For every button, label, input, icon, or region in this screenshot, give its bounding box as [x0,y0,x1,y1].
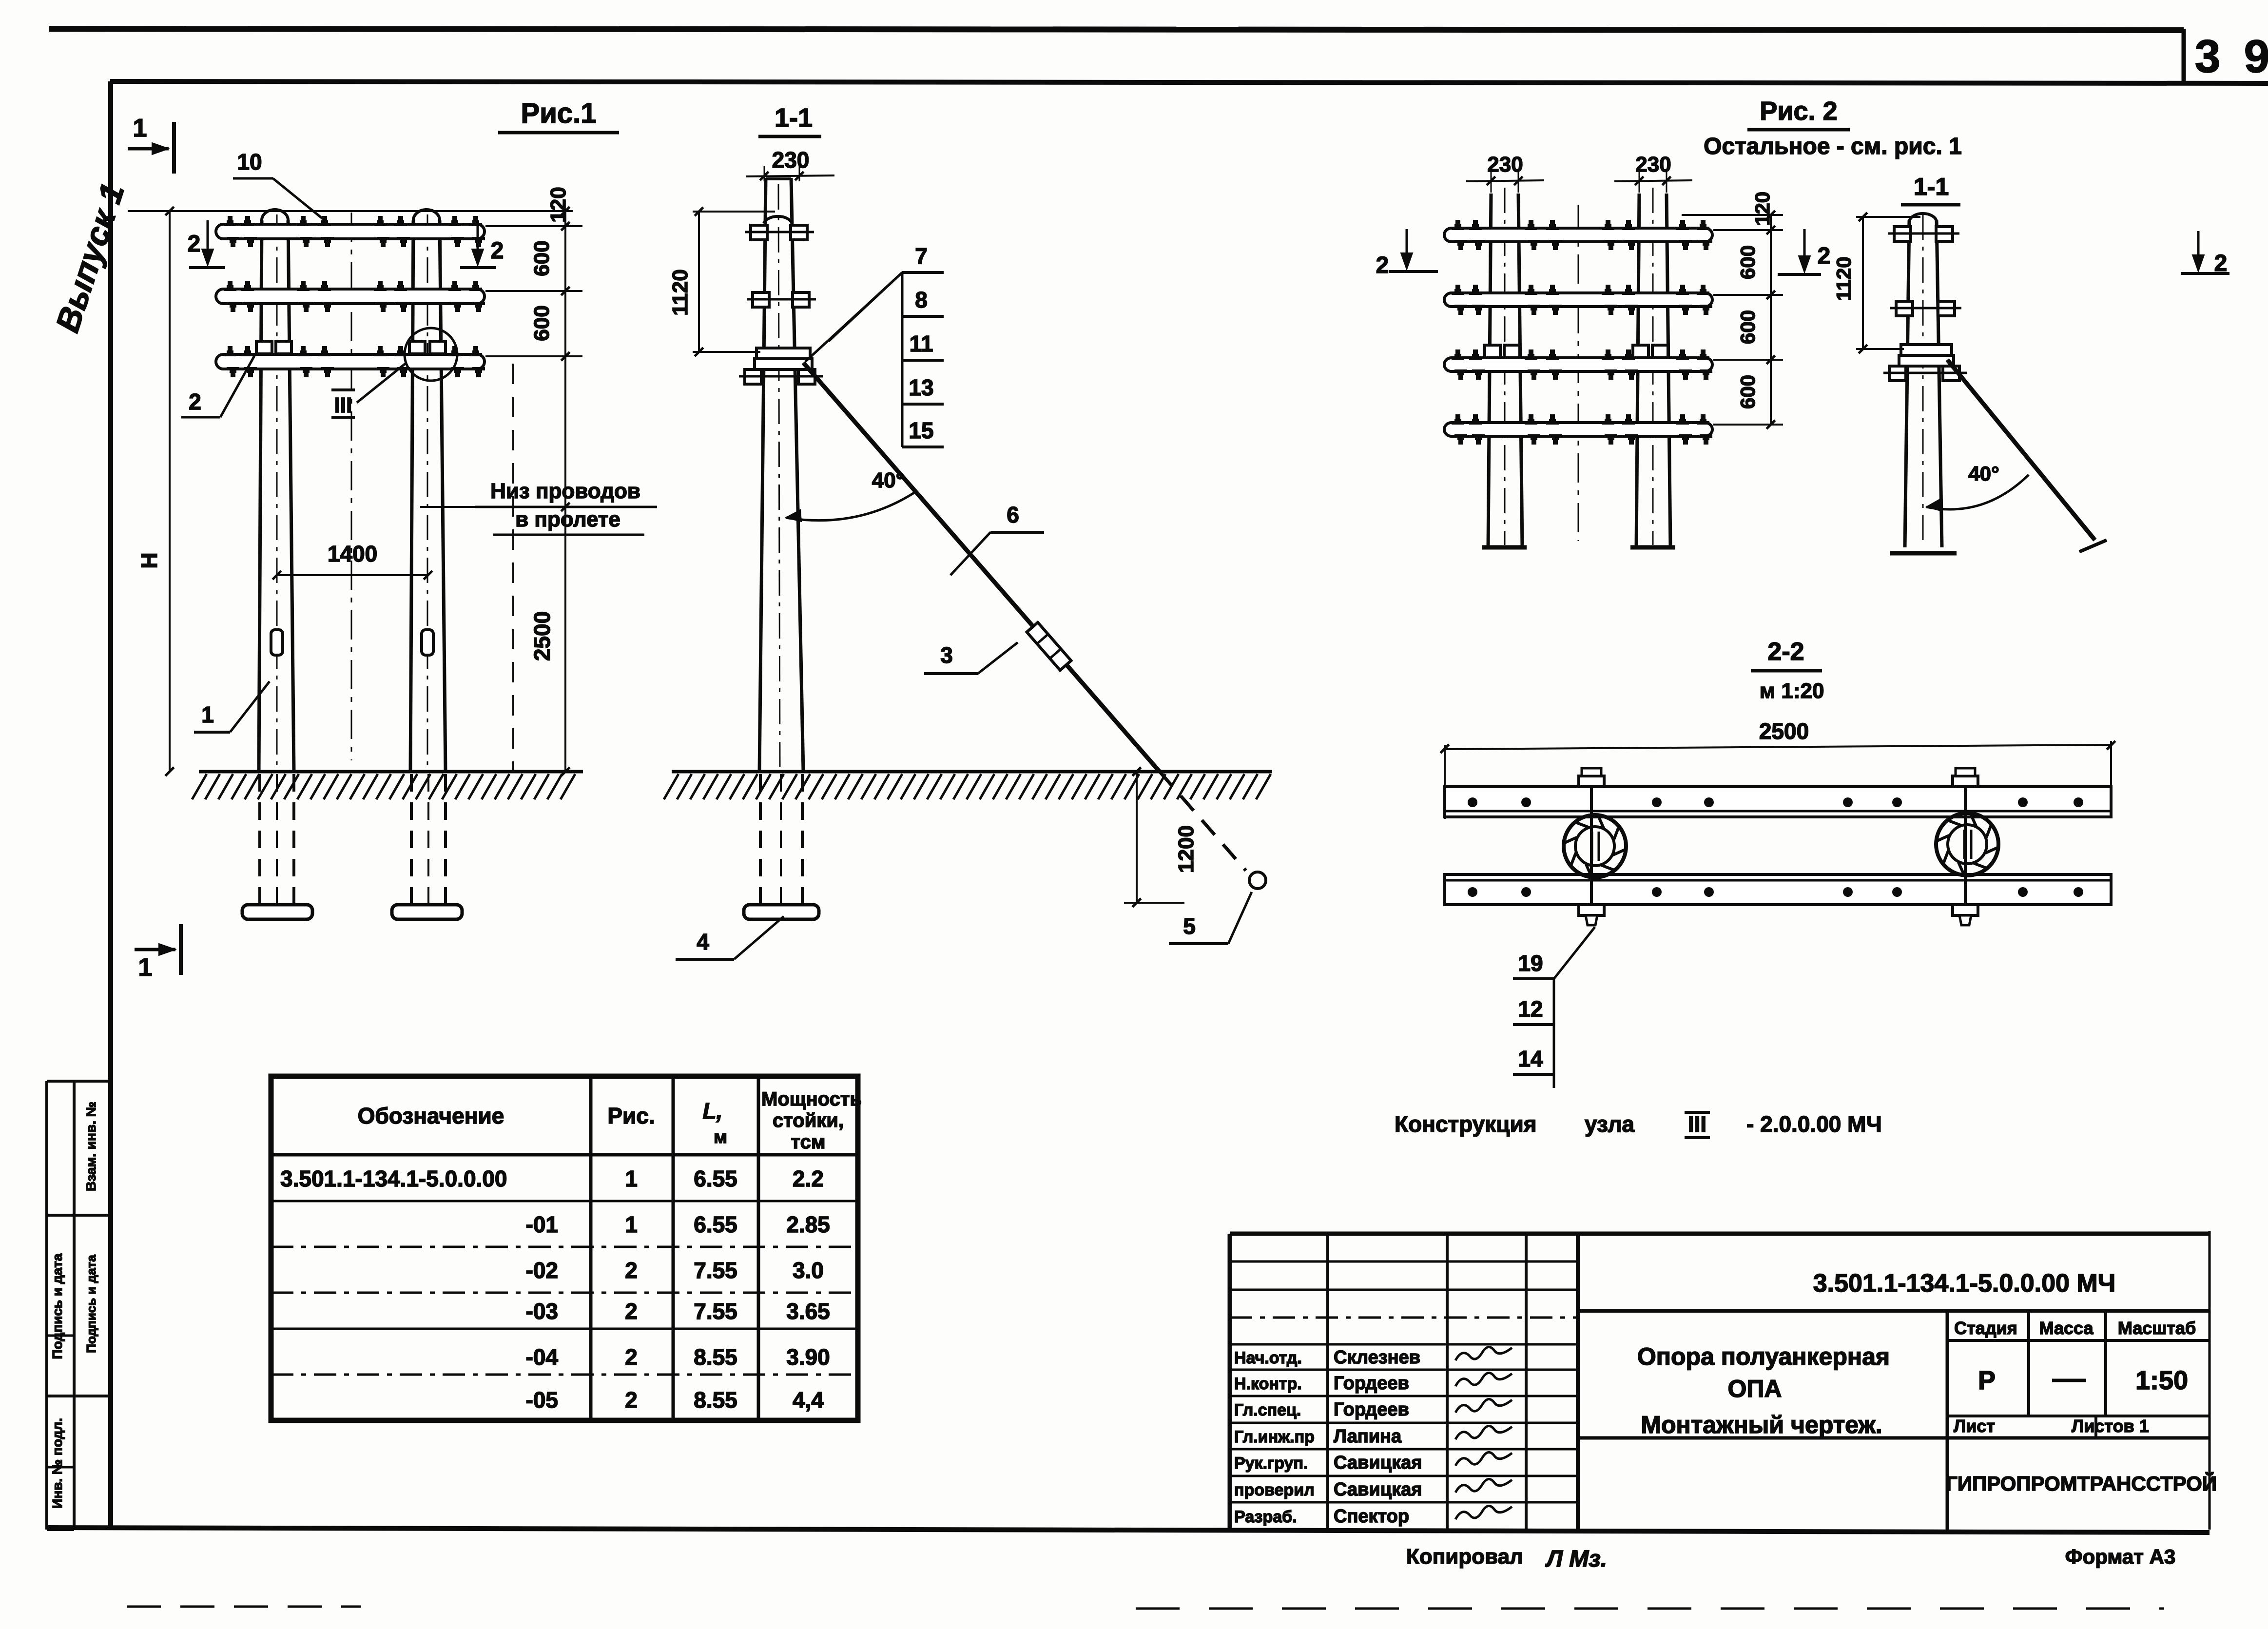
fig1 crossarm 1 [216,224,485,239]
svg-text:1120: 1120 [1832,256,1855,301]
fig2 crossarm 1 [1444,228,1712,242]
svg-text:Склезнев: Склезнев [1334,1347,1420,1368]
svg-text:L,: L, [703,1098,723,1124]
svg-text:8.55: 8.55 [694,1344,737,1370]
svg-text:120: 120 [546,187,570,222]
fig1 ground hatch [192,774,575,799]
fig1 footing plates [242,905,312,919]
fig2 crossarm 4 [1444,423,1712,436]
svg-text:Масштаб: Масштаб [2118,1318,2196,1338]
section ground hatch [664,774,1271,799]
svg-text:Рис.: Рис. [607,1103,655,1128]
fig2 crossarm 3 insulator pins [1452,349,1464,360]
svg-text:1400: 1400 [328,541,377,566]
svg-text:4: 4 [697,929,709,954]
svg-text:1: 1 [625,1212,638,1237]
svg-text:Рук.груп.: Рук.груп. [1234,1454,1308,1473]
fig2 crossarm 2 insulator pins [1452,285,1464,295]
fig1 crossarm 3 insulator pins [224,346,236,356]
svg-text:3.65: 3.65 [786,1299,830,1324]
svg-text:проверил: проверил [1234,1481,1315,1499]
svg-text:Гл.инж.пр: Гл.инж.пр [1234,1428,1315,1446]
handwritten Vypusk 1 [49,179,132,337]
svg-text:Рис. 2: Рис. 2 [1760,97,1837,126]
svg-text:1-1: 1-1 [1914,173,1949,200]
svg-text:стойки,: стойки, [773,1110,844,1131]
pole clamp 1 [751,225,767,240]
svg-text:2: 2 [188,231,201,257]
svg-text:1: 1 [201,702,214,727]
fig1 left pole [259,220,262,772]
fig1 pole grips [271,630,283,655]
wire dashed vertical [512,364,514,772]
svg-text:Нач.отд.: Нач.отд. [1234,1349,1302,1367]
signature rows [1230,1369,1578,1371]
fig2 section pole [1905,220,1909,547]
svg-text:19: 19 [1518,950,1543,976]
svg-text:Инв. № подл.: Инв. № подл. [50,1418,65,1509]
dim 1120 [698,212,700,352]
svg-text:Савицкая: Савицкая [1334,1453,1422,1473]
svg-text:2500: 2500 [1759,718,1809,744]
stadia massa masshtab grid [1946,1311,1949,1530]
table header row [271,1153,858,1157]
table row lines [271,1200,858,1202]
svg-text:Подпись и дата: Подпись и дата [50,1253,65,1359]
svg-text:2: 2 [189,389,201,414]
fig1 arm3 clamp plates [256,341,272,354]
svg-text:Л Мз.: Л Мз. [1545,1546,1607,1572]
guy clamp assembly [756,348,810,359]
fig2 center axis [1578,205,1579,541]
fig2 right pole [1636,194,1639,547]
pole clamp 2 [753,292,769,307]
svg-text:H: H [136,552,162,568]
svg-text:Листов 1: Листов 1 [2072,1416,2149,1436]
svg-text:14: 14 [1518,1046,1543,1071]
svg-text:-03: -03 [526,1299,558,1324]
fig2 guy clamp [1901,345,1952,355]
fig1 right pole [410,220,413,772]
svg-text:3: 3 [2195,31,2221,82]
svg-text:м: м [714,1127,727,1147]
svg-text:2-2: 2-2 [1767,638,1804,666]
svg-text:3.90: 3.90 [786,1344,830,1370]
section ground line [672,770,1272,774]
frame bottom border [47,1528,2210,1532]
svg-text:Взам. инв. №: Взам. инв. № [83,1102,98,1191]
through bolts of clamp [1590,779,1593,914]
overall height dimension H [169,211,171,772]
svg-text:600: 600 [530,240,554,276]
guy wire [803,363,1160,772]
section footing plate [744,905,819,919]
svg-text:2: 2 [1376,252,1389,278]
svg-text:Лапина: Лапина [1334,1426,1402,1447]
svg-text:Подпись и дата: Подпись и дата [84,1255,98,1353]
fig2 section clamp 1 [1894,227,1911,241]
svg-text:230: 230 [772,147,810,173]
svg-text:ОПА: ОПА [1728,1375,1782,1402]
guy wire buried dashed [1160,772,1246,871]
dim 1400 between poles [277,574,428,576]
svg-text:600: 600 [1736,310,1759,344]
svg-text:40°: 40° [872,468,905,492]
svg-text:-02: -02 [526,1258,558,1283]
fig2 section clamp 2 [1896,301,1913,316]
svg-text:600: 600 [530,305,554,341]
svg-text:тсм: тсм [791,1131,826,1153]
frame left border [108,81,113,1530]
section buried pole [759,774,762,906]
svg-text:III: III [1688,1111,1706,1137]
svg-text:-05: -05 [526,1387,558,1413]
svg-text:2: 2 [625,1299,638,1324]
svg-text:3: 3 [940,642,953,668]
svg-text:Опора полуанкерная: Опора полуанкерная [1637,1343,1890,1370]
svg-text:Гордеев: Гордеев [1334,1373,1409,1394]
svg-text:2: 2 [625,1258,638,1283]
dim 1200 anchor depth [1136,772,1138,903]
frame top border [110,81,2268,83]
svg-text:Лист: Лист [1954,1416,1995,1436]
svg-text:8.55: 8.55 [694,1387,737,1413]
svg-text:2.2: 2.2 [793,1166,824,1191]
upper empty rows [1230,1261,1578,1263]
svg-text:в пролете: в пролете [515,507,620,531]
fig1 ground line [199,770,583,774]
svg-text:1: 1 [133,114,147,142]
fig1 buried pole dashes [258,774,261,906]
svg-text:3.501.1-134.1-5.0.0.00: 3.501.1-134.1-5.0.0.00 [280,1166,507,1191]
svg-text:Стадия: Стадия [1954,1318,2017,1338]
fig2 crossarm 2 [1444,293,1712,307]
svg-text:узла: узла [1585,1111,1634,1137]
svg-text:6.55: 6.55 [694,1212,737,1237]
svg-text:Копировал: Копировал [1406,1545,1523,1569]
svg-text:-04: -04 [526,1344,559,1370]
svg-text:Рис.1: Рис.1 [521,97,597,129]
svg-text:ГИПРОПРОМТРАНССТРОЙ: ГИПРОПРОМТРАНССТРОЙ [1946,1472,2217,1495]
fig1 crossarm 2 [216,289,485,304]
svg-text:5: 5 [1183,913,1196,939]
svg-text:-01: -01 [526,1212,558,1237]
svg-text:м 1:20: м 1:20 [1760,679,1824,703]
fig1 crossarm 1 insulator pins [224,216,236,226]
detail circle III [405,328,457,381]
svg-text:1120: 1120 [668,269,692,315]
svg-text:2: 2 [625,1387,638,1413]
fig1 crossarm 2 insulator pins [224,281,236,291]
pole section circles [1564,815,1626,877]
svg-text:10: 10 [237,149,262,175]
svg-text:Обозначение: Обозначение [358,1103,504,1128]
fig2 dim 1120 [1862,217,1864,349]
pole cap arc [764,216,792,223]
svg-text:1:50: 1:50 [2135,1366,2188,1395]
table frame [271,1076,858,1420]
svg-text:6.55: 6.55 [694,1166,737,1191]
page number box top right [2182,29,2186,84]
svg-text:4,4: 4,4 [793,1387,824,1413]
svg-text:600: 600 [1736,375,1759,409]
svg-text:9: 9 [2244,31,2268,82]
table columns [589,1076,593,1420]
svg-text:13: 13 [909,375,933,400]
sheet top edge line [49,29,2184,30]
svg-text:2: 2 [491,238,504,264]
svg-text:Формат А3: Формат А3 [2065,1545,2175,1568]
fig2 right dims 120 600 600 600 [1770,215,1772,425]
svg-text:15: 15 [909,418,933,443]
anchor circle [1249,872,1266,889]
beam top channel [1445,787,2111,817]
svg-text:Масса: Масса [2039,1318,2094,1338]
svg-text:120: 120 [1751,192,1774,226]
svg-text:11: 11 [910,331,933,356]
fig2 arm3 clamp plates [1485,345,1500,358]
svg-text:III: III [334,393,352,417]
svg-text:Гордеев: Гордеев [1334,1399,1409,1420]
svg-text:Н.контр.: Н.контр. [1234,1375,1302,1393]
svg-text:Гл.спец.: Гл.спец. [1234,1401,1301,1419]
fig2 crossarm 3 [1444,358,1712,371]
svg-text:Савицкая: Савицкая [1334,1479,1422,1500]
fig2 guy wire [1947,360,2095,540]
dims 120 600 600 right of fig1 [485,225,582,227]
svg-text:7: 7 [915,243,928,269]
svg-text:1-1: 1-1 [775,103,813,133]
left column boxes [45,1081,48,1530]
turnbuckle [1027,622,1071,670]
dim 2500 wire height [564,211,566,772]
svg-text:Монтажный чертеж.: Монтажный чертеж. [1641,1411,1882,1438]
fig2 pole cut bars [1482,545,1527,550]
fig2 left pole [1488,194,1491,547]
svg-text:6: 6 [1007,502,1019,527]
svg-text:600: 600 [1736,245,1759,279]
svg-text:2.85: 2.85 [786,1212,830,1237]
leader line to clamp [805,272,902,362]
top channel bolts [1468,797,1477,807]
svg-text:2: 2 [625,1344,638,1370]
svg-text:1: 1 [625,1166,638,1191]
svg-text:40°: 40° [1968,462,1999,485]
bottom channel bolts [1468,887,1477,897]
svg-text:- 2.0.0.00 МЧ: - 2.0.0.00 МЧ [1746,1111,1882,1137]
svg-text:Р: Р [1978,1366,1996,1395]
svg-text:Остальное - см. рис. 1: Остальное - см. рис. 1 [1704,134,1962,159]
svg-text:Конструкция: Конструкция [1395,1111,1537,1137]
fig1 crossarm 3 [216,354,485,369]
fig1 center axis [351,213,352,760]
svg-text:3.501.1-134.1-5.0.0.00 МЧ: 3.501.1-134.1-5.0.0.00 МЧ [1813,1269,2116,1298]
list / listov row [2094,1416,2097,1438]
svg-text:Мощность: Мощность [761,1088,862,1110]
bottom scan dashes [127,1606,361,1608]
svg-text:8: 8 [915,287,928,312]
fig2 crossarm 4 insulator pins [1452,414,1464,425]
svg-text:1: 1 [138,953,153,982]
beam bottom channel [1445,874,2111,905]
section pole (fig1) [759,178,766,772]
fig2 crossarm 1 insulator pins [1452,220,1464,230]
svg-text:3.0: 3.0 [793,1258,824,1283]
svg-text:Разраб.: Разраб. [1234,1508,1297,1526]
svg-text:Спектор: Спектор [1334,1506,1409,1527]
title block outline [1230,1232,2210,1236]
title block columns [1326,1234,1329,1530]
svg-text:7.55: 7.55 [694,1299,737,1324]
fig2 pole cut bar [1890,551,1957,556]
svg-text:7.55: 7.55 [694,1258,737,1283]
svg-text:12: 12 [1518,996,1543,1022]
svg-text:2: 2 [1818,243,1831,269]
svg-text:1200: 1200 [1174,825,1198,873]
svg-text:2500: 2500 [529,611,555,661]
